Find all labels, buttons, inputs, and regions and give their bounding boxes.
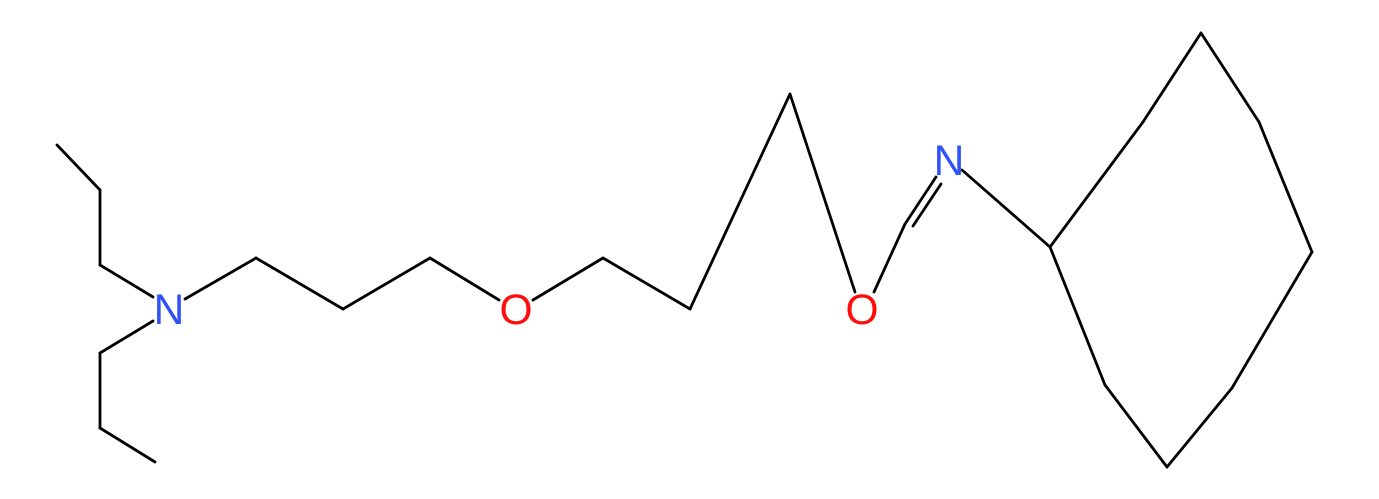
wire: propyl arm top vertical bond	[99, 190, 102, 265]
wire: propyl arm top bond to N1	[100, 265, 153, 297]
wire: C=N2 double bond line 2	[913, 184, 941, 226]
wire: cage ring S to W	[1050, 247, 1105, 385]
svg-text:N: N	[934, 138, 965, 185]
wire: long bond valley2 to tall apex	[690, 94, 790, 309]
wire: cage ring W to X	[1050, 122, 1143, 247]
wire: chain bond apex3 to valley2	[603, 258, 690, 309]
wire: chain bond N1 to apex1	[185, 258, 256, 299]
wire: propyl arm bottom vertical bond	[99, 353, 102, 428]
wire: chain bond O1 to apex3	[533, 258, 603, 300]
svg-text:O: O	[499, 287, 532, 334]
wire: cage bottom bridge apex V to T2	[1167, 388, 1232, 467]
wire: long bond tall apex to O2	[790, 94, 855, 292]
wire: propyl arm top outer bond	[57, 145, 100, 190]
svg-text:O: O	[845, 287, 878, 334]
wire: propyl arm bottom bond from N1	[100, 321, 153, 353]
wire: cage top bridge X to apex M	[1143, 33, 1201, 122]
wire: chain bond apex2 to O1	[430, 258, 499, 300]
svg-text:N: N	[154, 287, 185, 334]
wire: cage top bridge apex M to Y	[1201, 33, 1259, 122]
wire: C=N2 double bond line 1	[905, 177, 936, 224]
wire: bond O2 to imidate carbon	[874, 224, 905, 292]
wire: cage ring Y to F	[1259, 122, 1312, 252]
wire: bond N2 to cage vertex W	[962, 170, 1050, 247]
wire: chain bond valley1 to apex2	[343, 258, 430, 309]
wire: cage ring F to T2	[1232, 252, 1312, 388]
wire: chain bond apex1 to valley1	[256, 258, 343, 309]
wire: propyl arm bottom outer bond	[100, 428, 155, 462]
wire: cage bottom bridge S to apex V	[1105, 385, 1167, 467]
